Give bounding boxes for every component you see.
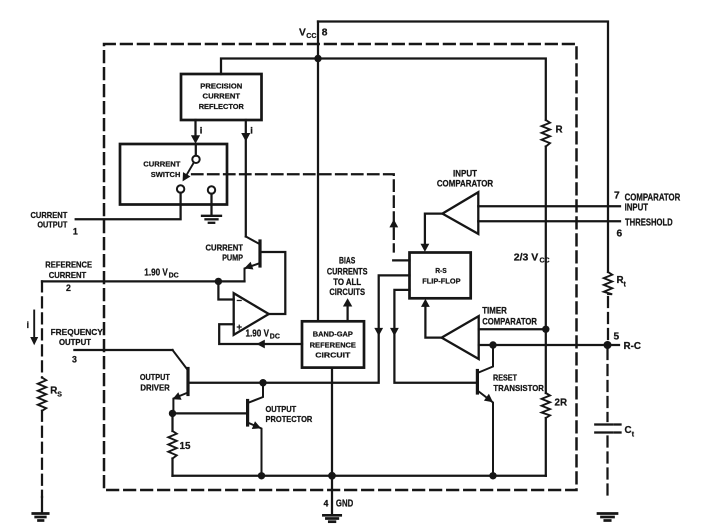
- wire bottom rail: [173, 475, 546, 477]
- svg-text:1.90 V: 1.90 V: [246, 329, 270, 340]
- svg-text:INPUT: INPUT: [625, 203, 649, 214]
- svg-text:S: S: [57, 392, 62, 399]
- svg-text:FLIP-FLOP: FLIP-FLOP: [422, 276, 460, 285]
- wire op-amp plus input: [219, 324, 302, 344]
- switch contact top: [195, 144, 197, 156]
- wire comparator input pin 7: [478, 205, 620, 207]
- node driver emitter junction: [169, 410, 176, 417]
- svg-text:R: R: [50, 386, 57, 397]
- svg-text:i: i: [250, 125, 253, 136]
- wire external dashed Ct to ground: [606, 437, 608, 500]
- switch contact left: [177, 185, 184, 192]
- svg-text:DC: DC: [169, 272, 179, 279]
- ground (pin 4): [323, 515, 340, 521]
- wire band-gap to ground rail: [331, 368, 333, 514]
- svg-text:PUMP: PUMP: [222, 254, 243, 263]
- capacitor Ct: [595, 425, 620, 433]
- transistor Q3 output protector: [246, 401, 249, 426]
- op-amp U1: [234, 293, 269, 335]
- svg-text:OUTPUT: OUTPUT: [37, 221, 67, 230]
- node protector emitter: [258, 472, 265, 479]
- wire VCC top rail: [318, 22, 608, 273]
- wire switch to pin 1: [76, 193, 181, 220]
- wire flip-flop output to reset transistor base: [394, 290, 476, 383]
- wire bias currents arrow: [346, 303, 348, 321]
- svg-text:TO ALL: TO ALL: [333, 277, 361, 287]
- R-S flip-flop box: [410, 253, 471, 299]
- svg-text:GND: GND: [336, 499, 353, 510]
- svg-text:CURRENT: CURRENT: [203, 92, 241, 101]
- switch contact right: [208, 186, 215, 193]
- svg-text:CURRENT: CURRENT: [206, 243, 244, 252]
- IC package dashed border: [104, 44, 577, 490]
- transistor Q2 output driver: [186, 369, 189, 395]
- svg-text:REFERENCE: REFERENCE: [45, 261, 92, 270]
- svg-text:8: 8: [322, 28, 328, 39]
- wire timer comparator output to flip-flop: [425, 303, 441, 338]
- svg-text:CIRCUITS: CIRCUITS: [329, 287, 365, 297]
- wire pin 3 frequency output: [74, 349, 172, 351]
- switch arm: [185, 162, 194, 177]
- svg-text:CC: CC: [306, 33, 316, 40]
- input comparator triangle: [442, 192, 478, 234]
- wire VCC to R divider: [318, 59, 546, 121]
- transistor Q4 reset: [476, 371, 479, 394]
- transistor Q1 current pump: [258, 241, 261, 266]
- svg-text:COMPARATOR: COMPARATOR: [482, 315, 537, 326]
- timer comparator triangle: [442, 316, 479, 359]
- wire external dashed Rt to pin5: [607, 297, 609, 341]
- node reset emitter on bottom rail: [489, 472, 496, 479]
- external resistor RS: [38, 378, 46, 411]
- svg-text:CURRENT: CURRENT: [143, 160, 180, 169]
- svg-text:CC: CC: [540, 257, 550, 264]
- resistor 15: [171, 413, 173, 431]
- node pin 5 external: [604, 341, 612, 349]
- svg-text:TIMER: TIMER: [482, 305, 507, 316]
- svg-text:CIRCUIT: CIRCUIT: [315, 351, 350, 360]
- svg-text:15: 15: [180, 441, 191, 452]
- svg-text:C: C: [625, 425, 632, 436]
- svg-text:DRIVER: DRIVER: [140, 383, 169, 392]
- wire pin 2 reference current: [42, 280, 245, 282]
- band-gap reference circuit box: [302, 321, 364, 367]
- svg-text:R-C: R-C: [624, 341, 641, 352]
- svg-text:i: i: [27, 319, 30, 330]
- svg-text:BAND-GAP: BAND-GAP: [313, 330, 353, 339]
- svg-text:REFERENCE: REFERENCE: [310, 340, 356, 349]
- wire reflector left output i: [194, 120, 196, 137]
- svg-text:1.90 V: 1.90 V: [144, 268, 168, 279]
- wire switch right to ground: [210, 194, 212, 215]
- svg-text:OUTPUT: OUTPUT: [140, 373, 170, 382]
- precision current reflector box: [181, 74, 262, 120]
- svg-text:2/3 V: 2/3 V: [514, 252, 539, 263]
- svg-text:PROTECTOR: PROTECTOR: [266, 415, 313, 424]
- wire threshold pin 6: [478, 220, 620, 222]
- wire timer comparator top input: [479, 328, 546, 330]
- svg-text:CURRENTS: CURRENTS: [327, 266, 368, 276]
- current direction arrow i: [33, 311, 35, 339]
- svg-text:DC: DC: [270, 334, 280, 341]
- svg-text:SWITCH: SWITCH: [151, 170, 181, 179]
- svg-text:2R: 2R: [555, 398, 568, 409]
- svg-text:REFLECTOR: REFLECTOR: [199, 102, 245, 111]
- ground (external right): [598, 514, 617, 521]
- svg-text:FREQUENCY: FREQUENCY: [51, 328, 104, 337]
- svg-text:R-S: R-S: [435, 266, 447, 275]
- svg-text:i: i: [200, 125, 203, 136]
- current switch box: [120, 144, 227, 205]
- svg-text:PRECISION: PRECISION: [200, 82, 242, 91]
- svg-text:CURRENT: CURRENT: [49, 271, 86, 280]
- resistor R: [542, 120, 550, 147]
- node 2/3 Vcc divider: [542, 326, 549, 333]
- svg-text:3: 3: [72, 355, 77, 365]
- wire pin 8 VCC vertical: [317, 22, 319, 322]
- ground (current switch): [202, 216, 221, 223]
- svg-text:COMPARATOR: COMPARATOR: [437, 178, 493, 189]
- wire op-amp minus input: [218, 281, 233, 299]
- wire pump base to op-amp output: [262, 252, 286, 314]
- svg-text:2: 2: [66, 283, 71, 293]
- wire input comparator output to flip-flop: [425, 214, 443, 247]
- ground (external left): [33, 514, 48, 521]
- svg-text:OUTPUT: OUTPUT: [266, 405, 297, 414]
- wire reflector feed: [221, 59, 318, 75]
- svg-text:RESET: RESET: [493, 373, 517, 382]
- svg-text:CURRENT: CURRENT: [31, 211, 68, 220]
- external resistor Rt: [604, 272, 612, 294]
- svg-text:1: 1: [73, 226, 78, 236]
- node pin2/op-amp junction: [215, 278, 222, 285]
- svg-text:7: 7: [614, 191, 620, 202]
- node reset collector on pin5: [489, 341, 496, 348]
- wire protector base: [173, 412, 247, 414]
- node VCC junction: [314, 55, 321, 62]
- svg-text:BIAS: BIAS: [339, 256, 355, 266]
- svg-text:4: 4: [324, 499, 329, 509]
- svg-text:5: 5: [614, 332, 620, 343]
- wire external dashed pin5 to Ct: [606, 349, 608, 421]
- svg-text:R: R: [556, 125, 563, 136]
- wire flip-flop output to output driver base: [189, 275, 410, 382]
- svg-text:V: V: [299, 28, 306, 39]
- resistor 2R: [545, 329, 547, 393]
- svg-text:6: 6: [617, 229, 623, 240]
- node protector collector: [259, 379, 266, 386]
- svg-text:+: +: [237, 321, 243, 332]
- svg-text:OUTPUT: OUTPUT: [59, 338, 91, 347]
- svg-text:TRANSISTOR: TRANSISTOR: [493, 384, 544, 393]
- wire external dashed RS branch: [41, 281, 43, 377]
- node GND junction: [328, 472, 336, 480]
- wire pin 5 line: [479, 344, 619, 346]
- wire reflector right output i: [245, 120, 247, 237]
- svg-text:−: −: [237, 295, 243, 306]
- wire dashed flip-flop to switch control: [192, 174, 394, 251]
- svg-text:THRESHOLD: THRESHOLD: [625, 217, 673, 228]
